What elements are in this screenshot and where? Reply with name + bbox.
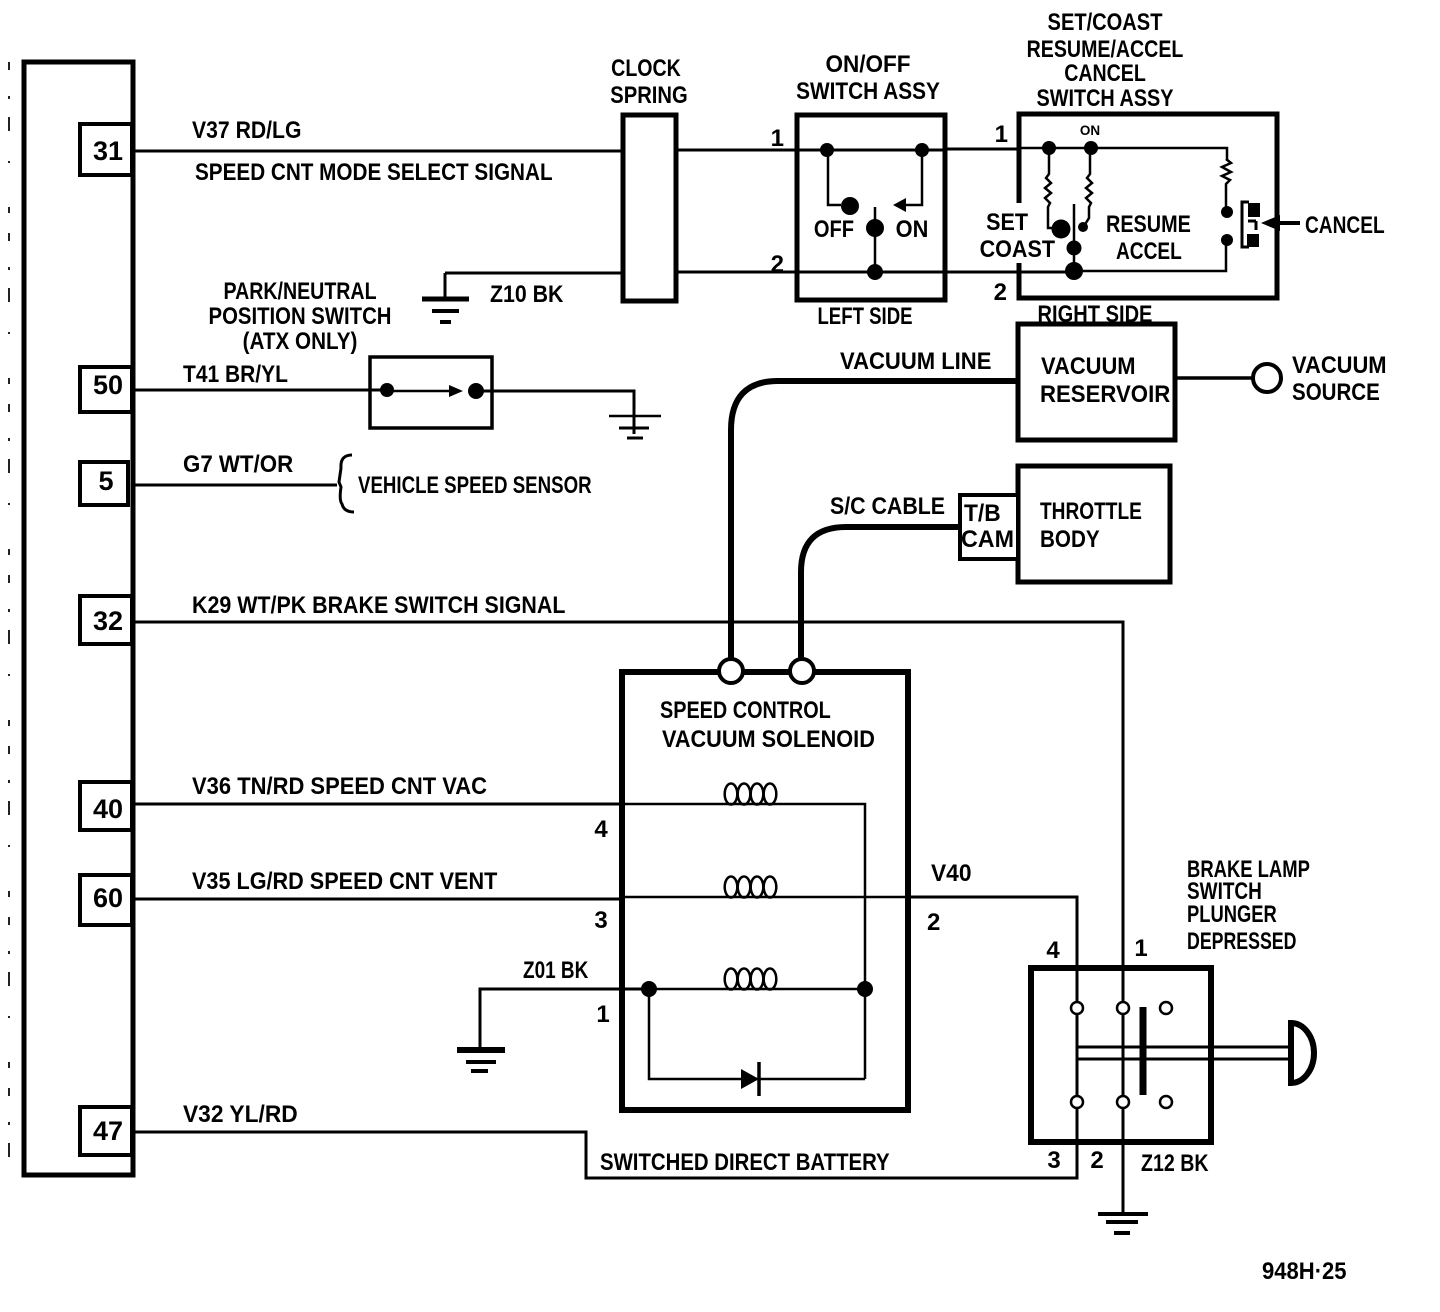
svg-text:ON: ON (896, 215, 929, 242)
resume contact dot (ON) (1084, 141, 1098, 155)
on/off switch assy (771, 50, 945, 329)
park/neutral left dot (380, 383, 394, 397)
set/coast wiper contact dots (1052, 220, 1071, 239)
grommet vacuum (719, 659, 743, 683)
svg-text:SPRING: SPRING (610, 81, 687, 108)
pin 31 (80, 124, 132, 175)
vacuum source port (1253, 364, 1281, 392)
svg-text:ON: ON (1080, 123, 1100, 138)
set/coast resume/accel cancel switch assy (963, 8, 1385, 327)
pin 60 (80, 875, 132, 925)
svg-text:COAST: COAST (980, 235, 1055, 263)
svg-text:60: 60 (93, 883, 123, 913)
svg-text:PLUNGER: PLUNGER (1187, 899, 1277, 927)
cancel pushbutton (1242, 202, 1256, 247)
svg-text:4: 4 (1046, 937, 1060, 964)
svg-text:V36 TN/RD SPEED CNT VAC: V36 TN/RD SPEED CNT VAC (192, 772, 487, 799)
svg-text:LEFT SIDE: LEFT SIDE (817, 301, 912, 329)
wire Z01 BK ground lead (480, 989, 649, 1048)
svg-text:1: 1 (771, 125, 784, 152)
cancel arrow (1261, 215, 1280, 231)
wire 2 clock spring to ON/OFF switch (676, 271, 797, 274)
svg-text:Z10 BK: Z10 BK (490, 280, 564, 308)
wire T41 BR/YL pin 50 to park/neutral switch (132, 389, 387, 392)
svg-text:V32 YL/RD: V32 YL/RD (183, 1101, 298, 1128)
svg-text:PARK/NEUTRAL: PARK/NEUTRAL (223, 277, 376, 305)
speed control vacuum solenoid box (622, 672, 908, 1110)
on arrow contact (893, 198, 906, 212)
wire V35 LG/RD pin 60 to solenoid (132, 898, 622, 901)
solenoid coil 2 line (V40) (622, 896, 908, 899)
svg-text:V40: V40 (931, 860, 972, 887)
brake switch terminals (1071, 1002, 1172, 1108)
svg-text:3: 3 (594, 907, 607, 934)
svg-text:Z12 BK: Z12 BK (1141, 1149, 1208, 1177)
solenoid coil 1 (725, 784, 777, 805)
wire V37 clock spring to ON/OFF switch (676, 149, 797, 152)
solenoid internal loop (649, 989, 865, 1079)
svg-text:VACUUM SOLENOID: VACUUM SOLENOID (662, 725, 875, 753)
plunger shaft (1077, 1047, 1289, 1059)
svg-text:BODY: BODY (1040, 524, 1100, 552)
wire G7 WT/OR pin 5 to vehicle speed sensor (128, 484, 337, 487)
page edge artifact (8, 62, 10, 1180)
svg-text:VACUUM: VACUUM (1292, 351, 1387, 378)
solenoid coil 1 line (622, 804, 865, 1079)
wire 1 ON/OFF to SET/COAST switch (945, 148, 1019, 151)
set/coast resistive contacts (1045, 153, 1231, 272)
svg-text:CLOCK: CLOCK (611, 54, 681, 82)
wire Z10 BK ground lead (445, 273, 622, 297)
svg-text:2: 2 (771, 251, 784, 278)
svg-text:(ATX ONLY): (ATX ONLY) (243, 326, 358, 354)
svg-text:V37 RD/LG: V37 RD/LG (192, 116, 301, 144)
wiper dot (866, 219, 884, 237)
svg-text:SWITCH ASSY: SWITCH ASSY (1036, 84, 1173, 111)
svg-text:948H·25: 948H·25 (1262, 1257, 1347, 1284)
wire 1 internal to cancel branch (1019, 148, 1227, 160)
PCM connector body (24, 62, 133, 1175)
ground park/neutral (609, 416, 661, 438)
svg-text:SET: SET (986, 208, 1028, 236)
svg-text:3: 3 (1047, 1147, 1060, 1174)
park/neutral arrow (449, 385, 463, 397)
svg-text:CANCEL: CANCEL (1064, 59, 1146, 87)
svg-text:T41 BR/YL: T41 BR/YL (183, 359, 288, 387)
svg-text:32: 32 (93, 606, 123, 636)
svg-text:VACUUM LINE: VACUUM LINE (840, 347, 991, 374)
pin 47 (80, 1107, 132, 1155)
solenoid coil 2 (725, 877, 777, 898)
set contact dot pin1 (1042, 141, 1056, 155)
svg-text:SWITCHED DIRECT BATTERY: SWITCHED DIRECT BATTERY (600, 1148, 890, 1175)
wire V40 solenoid to brake lamp switch (908, 897, 1077, 968)
pin 32 (80, 596, 132, 644)
svg-text:T/B: T/B (964, 500, 1001, 527)
park/neutral position switch (209, 277, 492, 428)
svg-text:SWITCH ASSY: SWITCH ASSY (796, 76, 940, 104)
svg-text:2: 2 (1090, 1147, 1103, 1174)
vehicle speed sensor brace (339, 455, 354, 512)
pin 50 (80, 367, 132, 412)
svg-text:SPEED CNT MODE SELECT SIGNAL: SPEED CNT MODE SELECT SIGNAL (195, 157, 553, 185)
svg-text:CAM: CAM (961, 525, 1014, 553)
wire V32 YL/RD pin 47 switched direct battery (132, 1132, 1077, 1178)
svg-text:RESUME: RESUME (1106, 210, 1191, 237)
svg-text:47: 47 (93, 1116, 123, 1146)
pin2 dot (867, 264, 883, 280)
svg-text:SPEED CONTROL: SPEED CONTROL (660, 696, 831, 723)
svg-text:OFF: OFF (814, 215, 854, 242)
wire park/neutral switch to ground (476, 391, 634, 434)
wire V36 TN/RD pin 40 to solenoid (132, 803, 622, 806)
wire 1 inside ON/OFF switch (797, 149, 945, 152)
cancel resistor contacts (1221, 206, 1233, 218)
park/neutral right dot (468, 383, 484, 399)
off contact dot (841, 197, 859, 215)
svg-text:31: 31 (93, 136, 123, 166)
throttle body (1018, 466, 1170, 582)
wire K29 WT/PK pin 32 brake switch signal (132, 622, 1123, 968)
svg-text:SET/COAST: SET/COAST (1048, 8, 1163, 35)
svg-text:Z01 BK: Z01 BK (523, 956, 588, 984)
label BRAKE LAMP SWITCH PLUNGER DEPRESSED (1187, 854, 1310, 954)
solenoid coil 3 (725, 969, 777, 990)
plunger cap (1291, 1023, 1314, 1083)
pin 40 (80, 782, 132, 830)
svg-text:ACCEL: ACCEL (1116, 237, 1182, 265)
svg-text:THROTTLE: THROTTLE (1040, 497, 1142, 525)
wire 2 ON/OFF to SET/COAST switch (945, 271, 1074, 274)
park/neutral contact wire (387, 390, 460, 393)
svg-text:40: 40 (93, 794, 123, 824)
svg-text:SOURCE: SOURCE (1292, 378, 1380, 405)
junction dot right (857, 981, 873, 997)
junction dot left (641, 981, 657, 997)
vacuum line hose (731, 381, 1018, 661)
vacuum reservoir (1018, 324, 1175, 440)
svg-text:5: 5 (98, 466, 113, 496)
ground Z12 (1098, 1214, 1148, 1233)
svg-text:2: 2 (927, 909, 940, 936)
svg-text:VACUUM: VACUUM (1041, 352, 1136, 379)
svg-text:K29 WT/PK BRAKE SWITCH SIGNAL: K29 WT/PK BRAKE SWITCH SIGNAL (192, 591, 565, 619)
svg-text:CANCEL: CANCEL (1305, 211, 1385, 239)
s/c cable (801, 527, 960, 661)
pin 5 (80, 462, 128, 505)
brake lamp switch box (1031, 968, 1211, 1142)
wire brake switch pin4 internal column (1076, 968, 1079, 1142)
ground Z10 (422, 299, 469, 322)
svg-text:50: 50 (93, 370, 123, 400)
junction dot wire 2 (1065, 262, 1083, 280)
svg-text:DEPRESSED: DEPRESSED (1187, 927, 1296, 954)
svg-text:S/C CABLE: S/C CABLE (830, 492, 945, 520)
svg-text:G7 WT/OR: G7 WT/OR (183, 450, 293, 477)
clock spring (610, 54, 687, 301)
svg-text:VEHICLE SPEED SENSOR: VEHICLE SPEED SENSOR (358, 471, 592, 499)
svg-text:V35 LG/RD SPEED CNT VENT: V35 LG/RD SPEED CNT VENT (192, 867, 497, 895)
svg-text:1: 1 (995, 121, 1008, 148)
svg-text:RESERVOIR: RESERVOIR (1040, 380, 1170, 407)
ground Z01 (457, 1050, 505, 1071)
svg-text:4: 4 (594, 816, 608, 843)
on/off internal contacts (828, 150, 922, 272)
t/b cam (960, 495, 1018, 559)
svg-text:2: 2 (994, 279, 1007, 306)
solenoid coil 3 line (649, 988, 865, 991)
wire 2 inside ON/OFF switch (797, 271, 945, 274)
svg-text:ON/OFF: ON/OFF (825, 50, 910, 77)
grommet s/c cable (790, 659, 814, 683)
brake switch contact bar (1140, 1007, 1147, 1095)
diode D1 (741, 1069, 759, 1089)
svg-text:1: 1 (1134, 935, 1147, 962)
svg-text:1: 1 (596, 1001, 609, 1028)
wire K29 inside brake switch to ground (1122, 968, 1125, 1212)
on/off pin1 dots (820, 143, 834, 157)
wire V37 RD/LG pin31 to clock spring (133, 150, 622, 153)
wire reservoir to vacuum source (1175, 376, 1252, 380)
